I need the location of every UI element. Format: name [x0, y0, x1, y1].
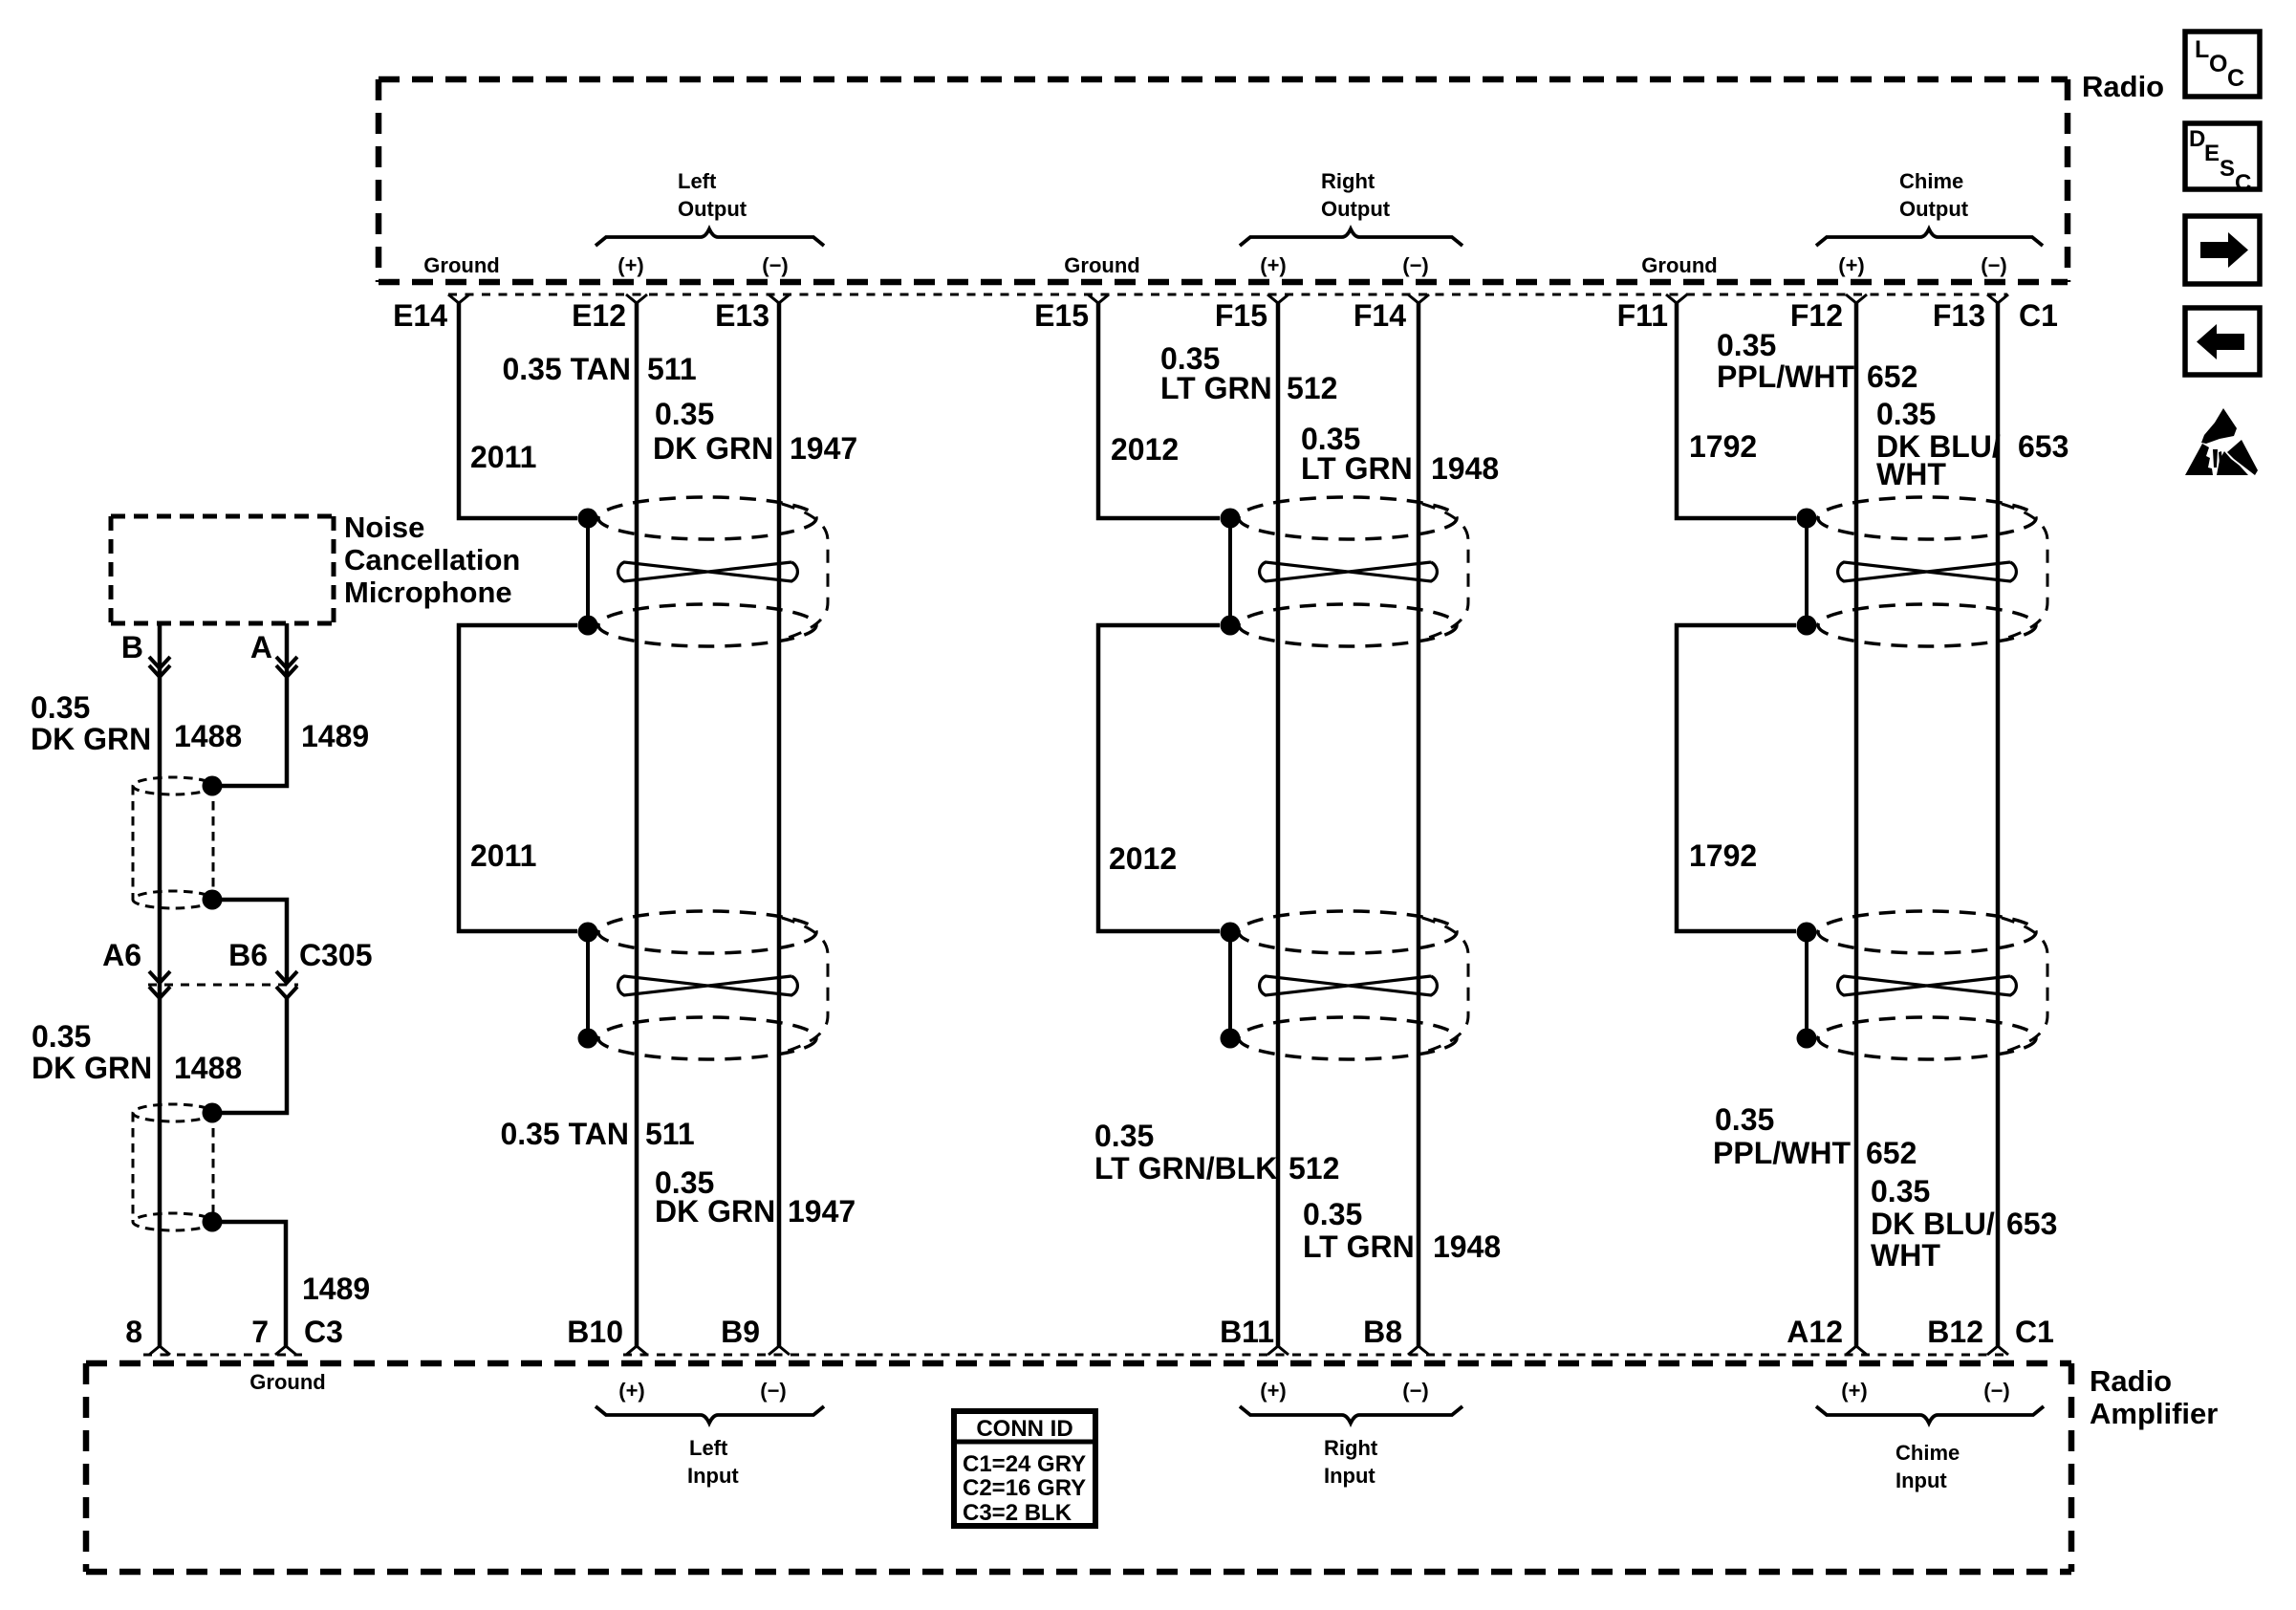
- svg-text:Ground: Ground: [1641, 253, 1717, 277]
- svg-text:Radio: Radio: [2082, 70, 2164, 103]
- svg-text:(+): (+): [1260, 1379, 1287, 1403]
- brace Left Input: [596, 1406, 824, 1424]
- svg-text:A12: A12: [1787, 1315, 1843, 1349]
- pin B10: [626, 1346, 647, 1355]
- svg-text:0.35 TAN: 0.35 TAN: [502, 352, 631, 386]
- Radio connector C1 face line: [448, 294, 2007, 296]
- svg-text:C305: C305: [299, 938, 373, 972]
- svg-text:2012: 2012: [1111, 432, 1179, 467]
- pin F13: [1987, 294, 2008, 303]
- svg-text:F12: F12: [1790, 298, 1843, 333]
- svg-text:Ground: Ground: [423, 253, 499, 277]
- svg-text:C: C: [2227, 65, 2244, 92]
- svg-text:652: 652: [1866, 1136, 1917, 1170]
- svg-text:E: E: [2204, 141, 2220, 166]
- svg-text:1948: 1948: [1433, 1229, 1501, 1264]
- svg-text:0.35: 0.35: [1876, 397, 1936, 431]
- pin F15: [1267, 294, 1289, 303]
- svg-text:E12: E12: [572, 298, 626, 333]
- pin E15: [1088, 294, 1109, 303]
- svg-text:(+): (+): [617, 253, 644, 277]
- svg-text:Output: Output: [1899, 197, 1969, 221]
- svg-text:B10: B10: [567, 1315, 623, 1349]
- brace Right Input: [1240, 1406, 1462, 1424]
- wire 1488 DK GRN (mic B): [158, 623, 162, 1346]
- pin B9: [769, 1346, 790, 1355]
- svg-text:0.35: 0.35: [1715, 1102, 1774, 1137]
- svg-text:Ground: Ground: [249, 1370, 325, 1394]
- svg-text:LT GRN: LT GRN: [1301, 451, 1413, 486]
- ground wire 2011 (E14): [459, 303, 577, 518]
- svg-text:1488: 1488: [174, 719, 242, 753]
- CONN ID table: [954, 1411, 1095, 1526]
- svg-text:Chime: Chime: [1899, 169, 1963, 193]
- svg-text:Output: Output: [678, 197, 747, 221]
- svg-text:0.35: 0.35: [32, 1019, 91, 1054]
- svg-text:1947: 1947: [788, 1194, 856, 1229]
- svg-text:E13: E13: [715, 298, 769, 333]
- svg-text:Input: Input: [1324, 1464, 1375, 1488]
- svg-text:O: O: [2209, 51, 2227, 77]
- wire 1948 LT GRN (F14-B8): [1417, 303, 1421, 1346]
- shield lower left pair: [598, 911, 816, 953]
- svg-text:Radio: Radio: [2090, 1364, 2172, 1398]
- Noise Cancellation Microphone (dashed component box): [111, 516, 334, 623]
- svg-text:512: 512: [1287, 371, 1337, 405]
- svg-text:WHT: WHT: [1871, 1238, 1940, 1273]
- splice S1 (inline, upper): [133, 777, 213, 794]
- pin F12: [1846, 294, 1867, 303]
- svg-text:0.35: 0.35: [1717, 328, 1776, 362]
- svg-text:C1: C1: [2019, 298, 2058, 333]
- svg-text:511: 511: [647, 352, 697, 386]
- svg-text:1488: 1488: [174, 1051, 242, 1085]
- brace Right Output: [1240, 229, 1462, 247]
- brace Chime Input: [1816, 1406, 2044, 1424]
- LOC icon: [2185, 32, 2260, 97]
- svg-text:DK GRN: DK GRN: [31, 722, 151, 756]
- svg-text:1947: 1947: [790, 431, 857, 466]
- svg-text:512: 512: [1289, 1151, 1339, 1186]
- svg-text:(+): (+): [1838, 253, 1865, 277]
- svg-text:(+): (+): [618, 1379, 645, 1403]
- svg-text:0.35: 0.35: [1303, 1197, 1362, 1231]
- svg-text:Cancellation: Cancellation: [344, 543, 520, 577]
- shield upper left pair: [598, 497, 816, 539]
- svg-text:511: 511: [645, 1117, 695, 1151]
- svg-text:C1=24 GRY: C1=24 GRY: [963, 1451, 1086, 1477]
- svg-text:L: L: [2195, 36, 2209, 63]
- svg-text:Amplifier: Amplifier: [2090, 1397, 2218, 1430]
- wire 653 DK BLU/WHT (F13-B12): [1996, 303, 2001, 1346]
- back arrow icon: [2185, 308, 2260, 375]
- mic A connector arrows: [276, 657, 297, 668]
- svg-text:Chime: Chime: [1895, 1441, 1960, 1465]
- svg-text:(−): (−): [760, 1379, 787, 1403]
- svg-text:Input: Input: [1895, 1469, 1947, 1492]
- forward arrow icon: [2185, 216, 2260, 284]
- brace Chime Output: [1816, 229, 2043, 247]
- svg-text:B6: B6: [228, 938, 268, 972]
- svg-text:B12: B12: [1927, 1315, 1983, 1349]
- pin E13: [769, 294, 790, 303]
- svg-text:(+): (+): [1841, 1379, 1868, 1403]
- svg-text:A6: A6: [102, 938, 141, 972]
- svg-text:Right: Right: [1321, 169, 1375, 193]
- svg-text:(−): (−): [1402, 253, 1429, 277]
- svg-text:1489: 1489: [301, 719, 369, 753]
- svg-text:C3: C3: [304, 1315, 343, 1349]
- pin E14: [448, 294, 469, 303]
- svg-text:0.35: 0.35: [1094, 1119, 1154, 1153]
- svg-text:Left: Left: [689, 1436, 728, 1460]
- svg-text:Output: Output: [1321, 197, 1391, 221]
- svg-text:F11: F11: [1617, 298, 1668, 333]
- ESD sensitive device symbol: [2185, 408, 2258, 475]
- svg-text:C3=2 BLK: C3=2 BLK: [963, 1500, 1072, 1526]
- wire 511 TAN (E12-B10): [635, 303, 639, 1346]
- shield lower chime pair: [1818, 911, 2036, 953]
- pin B8: [1408, 1346, 1429, 1355]
- svg-text:653: 653: [2006, 1207, 2057, 1241]
- svg-text:8: 8: [125, 1315, 142, 1349]
- ground wire 2012 (E15): [1098, 303, 1220, 518]
- pin E12: [626, 294, 647, 303]
- svg-text:653: 653: [2018, 429, 2069, 464]
- connector C305: [148, 984, 298, 987]
- twist lower chime pair: [1838, 976, 2017, 995]
- wire 1489 (mic A upper): [222, 623, 287, 786]
- svg-text:DK GRN: DK GRN: [655, 1194, 775, 1229]
- pin 8: [149, 1346, 170, 1355]
- svg-text:S: S: [2220, 156, 2235, 182]
- svg-text:(−): (−): [1402, 1379, 1429, 1403]
- svg-text:B11: B11: [1220, 1315, 1274, 1349]
- svg-text:652: 652: [1867, 359, 1917, 394]
- wire 512 LT GRN (F15-B11): [1276, 303, 1281, 1346]
- svg-text:DK GRN: DK GRN: [32, 1051, 152, 1085]
- wire 1489 from splice S1: [212, 900, 287, 981]
- svg-text:E15: E15: [1034, 298, 1089, 333]
- svg-text:F14: F14: [1354, 298, 1406, 333]
- Radio Amplifier connector C1 face line: [623, 1354, 2011, 1357]
- svg-text:(−): (−): [1983, 1379, 2010, 1403]
- twist upper chime pair: [1838, 562, 2017, 581]
- Radio Amplifier (dashed component box): [86, 1363, 2071, 1572]
- svg-text:0.35: 0.35: [31, 690, 90, 725]
- svg-text:2011: 2011: [470, 440, 536, 474]
- wire 1489 to pin 7: [212, 1222, 286, 1346]
- svg-text:Left: Left: [678, 169, 717, 193]
- pin F14: [1408, 294, 1429, 303]
- svg-text:1792: 1792: [1689, 429, 1757, 464]
- svg-text:DK GRN: DK GRN: [653, 431, 773, 466]
- svg-text:F13: F13: [1933, 298, 1985, 333]
- brace Left Output: [596, 229, 824, 247]
- ground wire 1792 (F11): [1677, 303, 1796, 518]
- svg-text:2012: 2012: [1109, 841, 1177, 876]
- pin B12: [1987, 1346, 2008, 1355]
- pin B11: [1267, 1346, 1289, 1355]
- twist upper right-output pair: [1260, 562, 1438, 581]
- svg-text:PPL/WHT: PPL/WHT: [1713, 1136, 1851, 1170]
- svg-text:A: A: [250, 630, 272, 664]
- svg-text:Microphone: Microphone: [344, 576, 512, 609]
- twist upper left pair: [618, 562, 798, 581]
- svg-text:1489: 1489: [302, 1272, 370, 1306]
- shield upper chime pair: [1818, 497, 2036, 539]
- splice S2 (inline, lower): [133, 1104, 213, 1121]
- svg-text:CONN ID: CONN ID: [976, 1416, 1072, 1442]
- svg-text:B: B: [121, 630, 143, 664]
- DESC icon: [2185, 123, 2260, 189]
- svg-text:E14: E14: [393, 298, 447, 333]
- Radio (dashed component box): [379, 79, 2068, 282]
- twist lower left pair: [618, 976, 798, 995]
- svg-text:1792: 1792: [1689, 838, 1757, 873]
- svg-text:B9: B9: [721, 1315, 760, 1349]
- svg-text:DK BLU/: DK BLU/: [1871, 1207, 1995, 1241]
- twist lower right-output pair: [1260, 976, 1438, 995]
- svg-text:Ground: Ground: [1064, 253, 1139, 277]
- svg-text:D: D: [2189, 126, 2205, 152]
- svg-text:PPL/WHT: PPL/WHT: [1717, 359, 1854, 394]
- shield lower right-output pair: [1239, 911, 1457, 953]
- svg-text:(−): (−): [762, 253, 789, 277]
- svg-text:0.35 TAN: 0.35 TAN: [500, 1117, 629, 1151]
- svg-text:WHT: WHT: [1876, 457, 1946, 491]
- svg-text:B8: B8: [1363, 1315, 1402, 1349]
- svg-text:C2=16 GRY: C2=16 GRY: [963, 1475, 1086, 1501]
- wire 1947 DK GRN (E13-B9): [777, 303, 782, 1346]
- pin A12: [1846, 1346, 1867, 1355]
- svg-text:LT GRN: LT GRN: [1160, 371, 1272, 405]
- pin F11: [1666, 294, 1687, 303]
- shield upper right-output pair: [1239, 497, 1457, 539]
- svg-text:Input: Input: [687, 1464, 739, 1488]
- svg-text:LT GRN/BLK: LT GRN/BLK: [1094, 1151, 1277, 1186]
- svg-text:C1: C1: [2015, 1315, 2054, 1349]
- wire 652 PPL/WHT (F12-A12): [1854, 303, 1859, 1346]
- svg-text:7: 7: [251, 1315, 269, 1349]
- svg-text:1948: 1948: [1431, 451, 1499, 486]
- svg-text:LT GRN: LT GRN: [1303, 1229, 1415, 1264]
- svg-text:(+): (+): [1260, 253, 1287, 277]
- svg-text:0.35: 0.35: [1871, 1174, 1930, 1208]
- svg-text:C: C: [2235, 170, 2251, 196]
- Radio Amplifier connector C3 face line: [143, 1354, 302, 1357]
- svg-text:(−): (−): [1981, 253, 2007, 277]
- svg-text:Right: Right: [1324, 1436, 1378, 1460]
- svg-text:F15: F15: [1215, 298, 1267, 333]
- svg-text:0.35: 0.35: [655, 397, 714, 431]
- svg-text:2011: 2011: [470, 838, 536, 873]
- pin 7: [275, 1346, 296, 1355]
- mic B connector arrows: [149, 657, 170, 668]
- svg-text:Noise: Noise: [344, 511, 424, 544]
